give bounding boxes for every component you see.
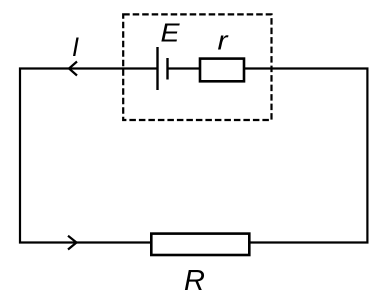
- svg-text:R: R: [184, 265, 205, 297]
- battery E short plate: [166, 58, 168, 80]
- svg-text:I: I: [72, 32, 79, 62]
- current arrow on bottom wire (pointing right): [68, 236, 77, 250]
- wire between battery and resistor r: [168, 67, 201, 69]
- resistor r body: [200, 59, 244, 82]
- battery E long plate: [156, 47, 158, 90]
- wire top-left + left + bottom-left segment: [20, 69, 158, 243]
- svg-text:E: E: [161, 18, 181, 48]
- svg-text:r: r: [218, 25, 229, 55]
- dashed source boundary box: [123, 14, 271, 120]
- wire top-right + right + bottom-right segment: [245, 69, 368, 243]
- current arrow on top wire (pointing left): [69, 62, 77, 76]
- resistor R body: [151, 234, 249, 255]
